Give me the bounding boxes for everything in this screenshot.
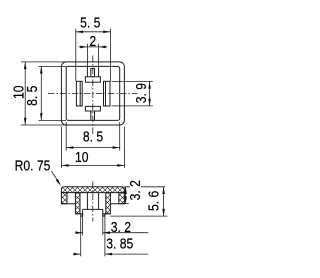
bottom bar [85,106,100,111]
svg-text:3. 9: 3. 9 [133,83,149,103]
outer cap outline (top view) [61,62,124,125]
horizontal centerline (top view) [48,93,138,95]
stem step shoulders [75,213,110,215]
dimension 5.5 (top) [76,29,111,81]
svg-text:3. 85: 3. 85 [106,236,133,252]
svg-text:3. 2: 3. 2 [127,180,143,200]
right skirt wall (hatched) [119,193,125,204]
top slot sides [87,66,98,76]
left skirt wall (hatched) [61,193,67,204]
dimension 3.9 (right) [112,81,153,106]
dimension 10 (left) [21,62,66,125]
left tab [76,81,82,106]
dimension 8.5 (left) [39,66,67,120]
svg-text:10: 10 [75,149,89,165]
hole bottom opening walls [83,209,103,216]
left tab inner line [79,81,81,106]
svg-text:5. 6: 5. 6 [146,191,162,211]
top bar [85,77,100,82]
dimension 3.2 (side right) [124,187,128,204]
stem bottom edges [81,215,105,217]
top band (hatched) [61,187,124,193]
svg-text:8. 5: 8. 5 [24,86,40,106]
dimension 8.5 (bottom) [66,122,120,151]
slot background edges [83,193,103,210]
svg-text:R0. 75: R0. 75 [15,157,51,173]
bottom slot sides [91,111,95,120]
svg-text:3. 2: 3. 2 [111,219,131,235]
side view centerline [92,182,94,222]
top slot inner notch [91,69,95,77]
skirt bottom edges [61,203,124,205]
svg-text:8. 5: 8. 5 [83,129,103,145]
dimension 10 (bottom) [61,127,124,168]
stem upper left wall (hatched) [75,193,80,214]
stem upper right wall (hatched) [106,193,111,214]
right tab inner line [105,81,107,106]
dimension 3.85 (bottom) [73,217,148,257]
dimension 3.2 (bottom) [76,217,148,236]
stem lower walls (hatched) [81,214,83,216]
dimension 2 (top) [79,44,108,67]
dimension 5.6 (side right) [110,187,167,216]
svg-text:5. 5: 5. 5 [80,15,100,31]
svg-text:2: 2 [89,33,96,49]
vertical centerline (top view) [92,56,94,137]
inner cap edge (top view) [66,66,120,120]
right tab [104,81,111,106]
